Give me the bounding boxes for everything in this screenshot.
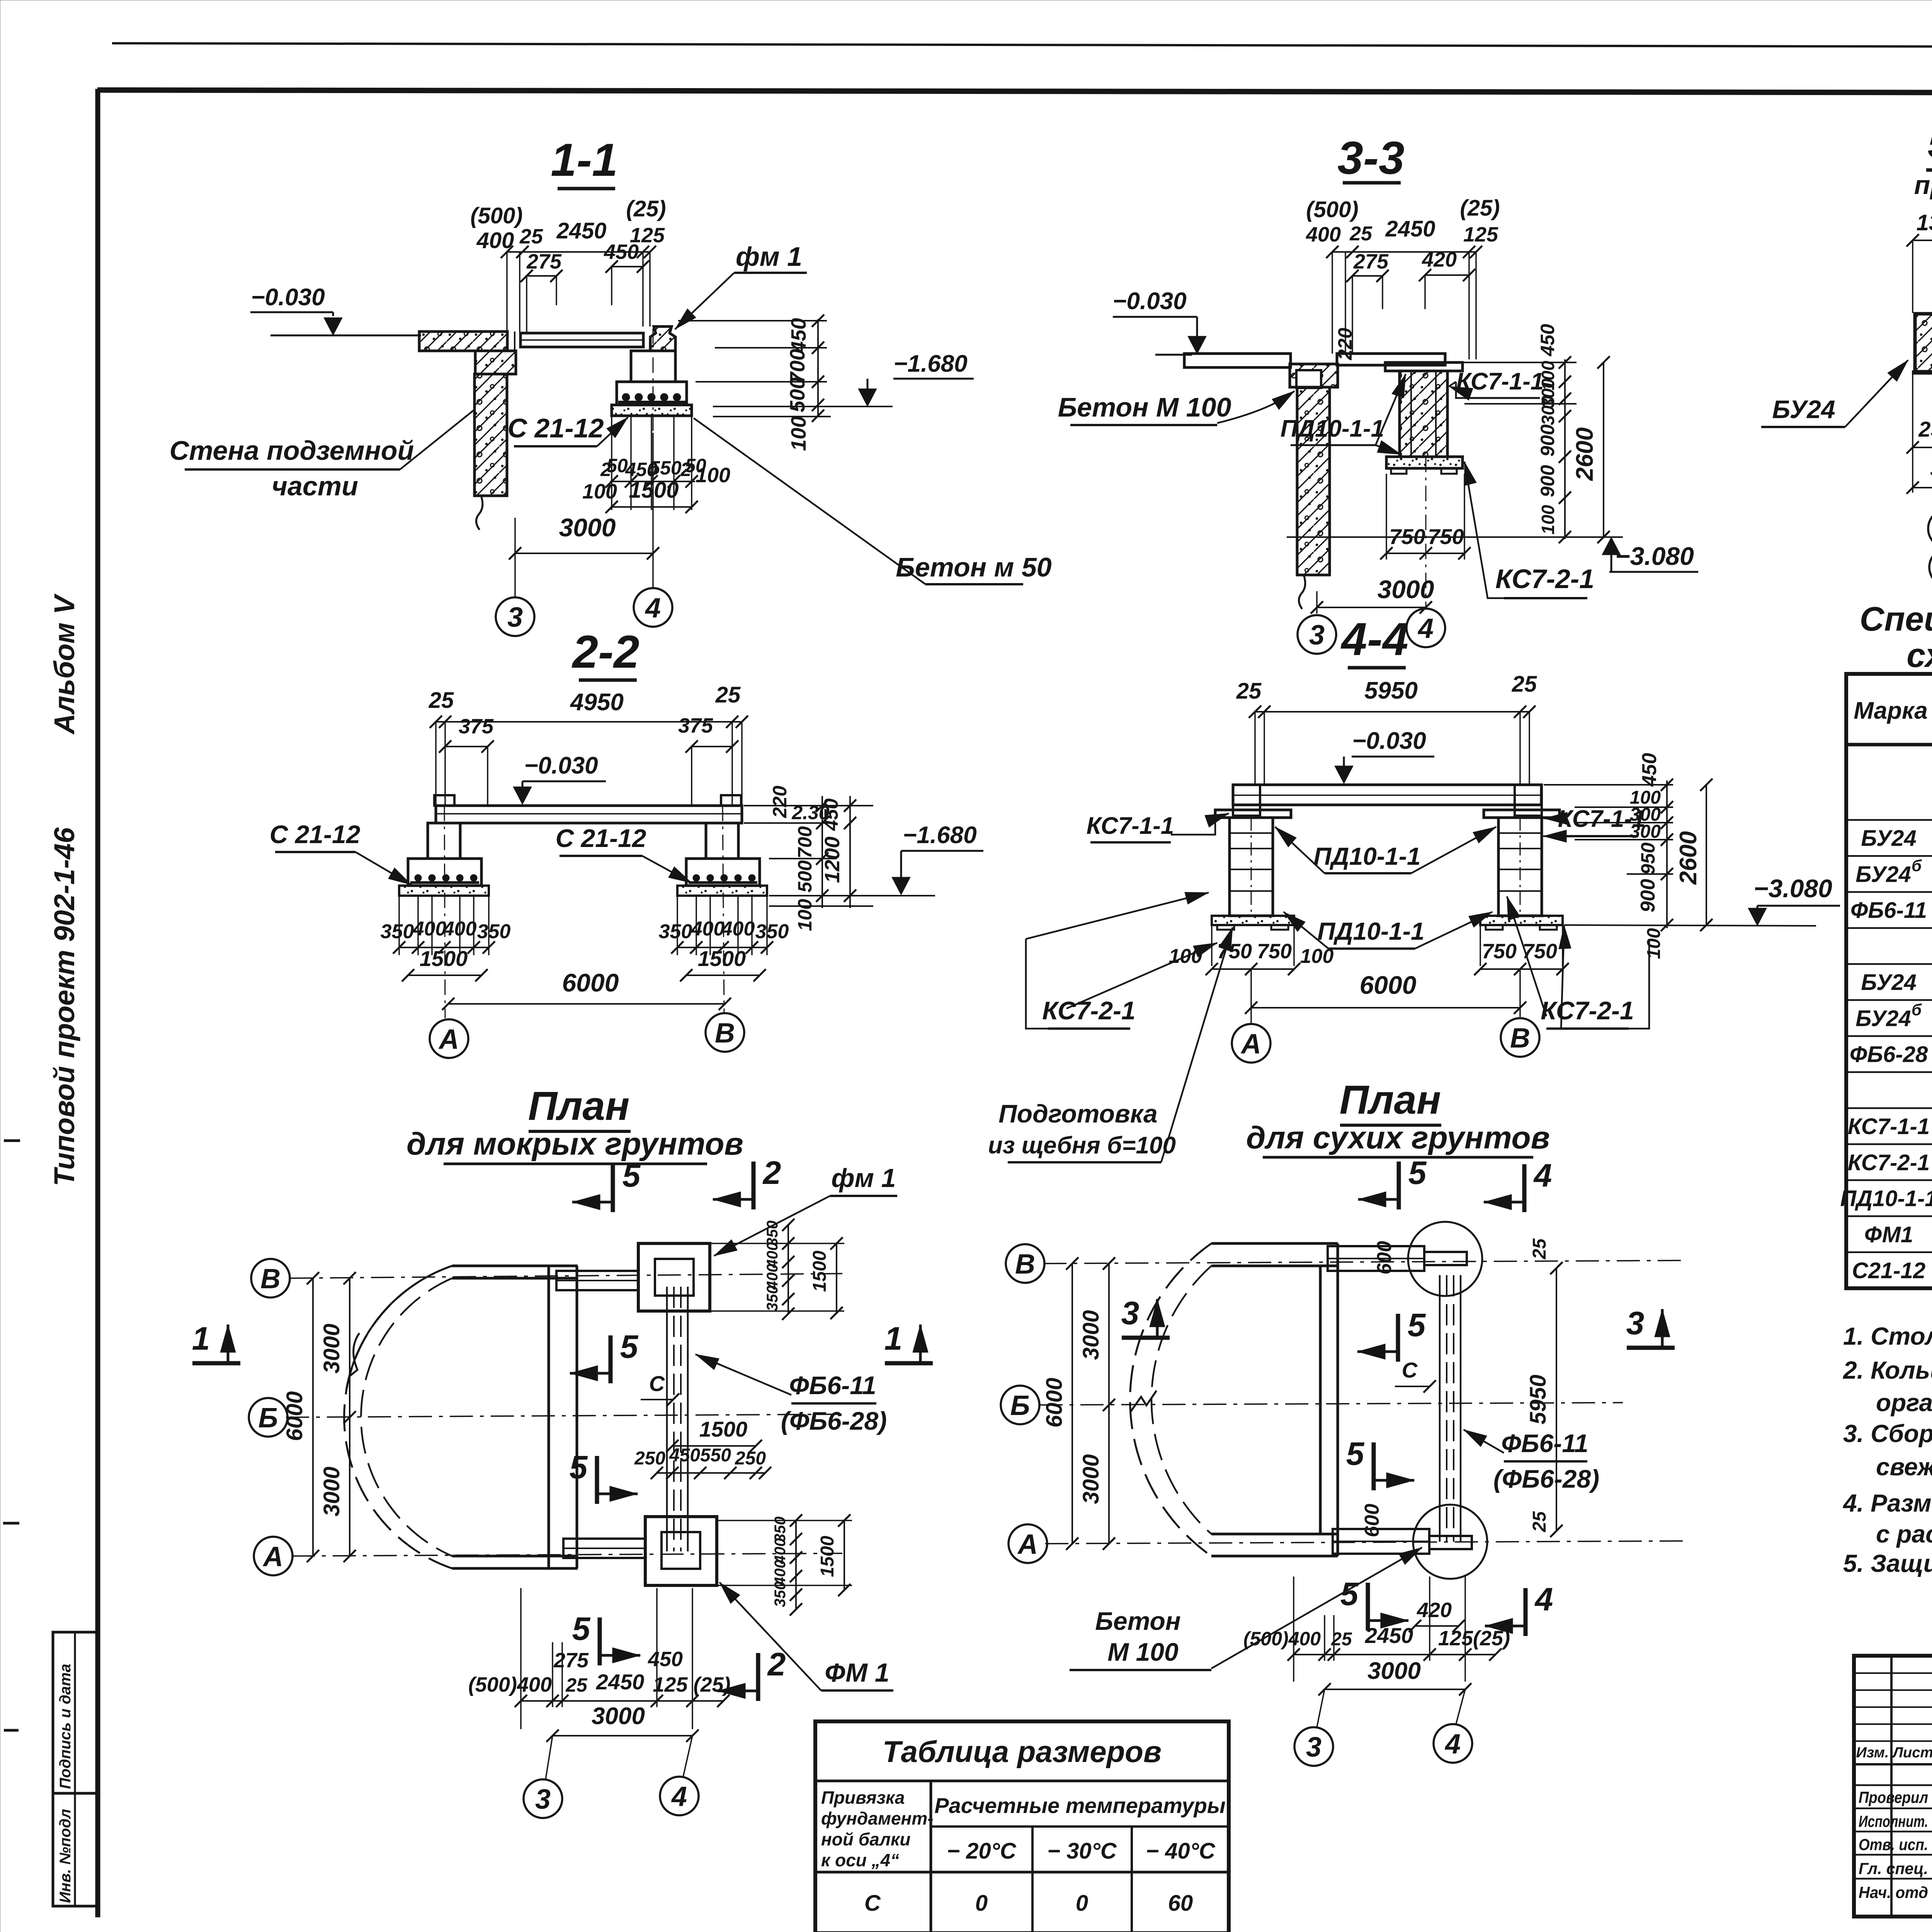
svg-text:1-1: 1-1 [551,134,617,186]
section 3-3 extension lines bottom [1386,474,1387,560]
svg-text:400: 400 [721,918,755,940]
план мокрых грунтов: cut mark 5 middle [595,1456,599,1504]
svg-text:А: А [1017,1529,1038,1560]
svg-text:0: 0 [975,1891,988,1916]
svg-text:130: 130 [1917,210,1932,235]
svg-text:ПД10-1-1: ПД10-1-1 [1840,1186,1932,1211]
svg-text:6000: 6000 [282,1391,307,1441]
svg-text:В: В [1510,1023,1530,1054]
section 1-1 lower extension lines [611,416,612,510]
svg-text:Отв. исп.: Отв. исп. [1859,1835,1928,1854]
section 2-2 left rebar dots [415,874,422,881]
svg-text:2450: 2450 [1365,1623,1413,1648]
svg-text:ПД10-1-1: ПД10-1-1 [1281,415,1384,442]
svg-text:А: А [1240,1029,1261,1060]
план мокрых грунтов: dims near bottom ФМ1 [795,1520,797,1609]
план мокрых грунтов: axis circle В [251,1259,290,1298]
svg-text:для сухих грунтов: для сухих грунтов [1246,1120,1550,1155]
paper edge tick 1 [4,1139,20,1142]
section 1-1 axis line 4 [652,433,654,588]
section 2-2 right base plate [677,886,767,896]
svg-text:Расчетные температуры: Расчетные температуры [934,1793,1225,1818]
svg-text:50: 50 [606,455,628,476]
section 4-4 lower extension lines [1211,925,1213,966]
svg-text:5: 5 [572,1611,591,1647]
section 4-4 right ring column [1498,818,1542,916]
svg-text:4: 4 [645,593,661,624]
svg-text:3. Сборные железобетонные эл: 3. Сборные железобетонные элементы уклад… [1843,1420,1932,1447]
svg-text:3: 3 [1121,1295,1139,1331]
svg-text:Марка: Марка [1854,697,1927,724]
section 4-4 beam [1233,785,1541,805]
svg-text:450: 450 [669,1445,700,1466]
svg-text:3000: 3000 [1367,1658,1421,1684]
svg-text:2450: 2450 [596,1670,645,1694]
section 2-2 right rebar dots [693,874,700,881]
section 3-3 ring column hatched [1400,371,1447,457]
план сухих грунтов: top wall [1211,1242,1338,1245]
план сухих грунтов: cut mark 4 bottom [1524,1588,1528,1636]
svg-text:−0.030: −0.030 [251,284,325,311]
svg-text:450: 450 [1537,324,1558,357]
svg-text:375: 375 [678,714,713,737]
section 4-4 left ring column [1230,818,1273,916]
svg-text:−0.030: −0.030 [524,752,598,779]
svg-text:С 21-12: С 21-12 [270,820,361,849]
svg-text:5: 5 [1340,1576,1359,1612]
section 2-2 beam end blocks [434,795,454,806]
svg-text:2450: 2450 [556,218,606,243]
section 2-2 left footing [408,859,481,886]
план мокрых грунтов: cut mark 5 top [611,1164,615,1212]
section 3-3 right ref lines [1447,362,1577,363]
svg-text:1500: 1500 [699,1417,748,1441]
section 3-3 base feet [1391,468,1406,474]
план мокрых грунтов: axis В line [289,1274,842,1278]
section 2-2 right column [706,823,738,859]
svg-text:25: 25 [1512,672,1537,697]
svg-text:ПД10-1-1: ПД10-1-1 [1313,842,1420,870]
план сухих грунтов: beam band right ФБ6-11 [1439,1275,1441,1542]
svg-text:Б: Б [259,1403,278,1434]
svg-text:900: 900 [1537,465,1558,497]
svg-text:400: 400 [443,918,477,940]
svg-text:750: 750 [1482,940,1517,963]
svg-text:450: 450 [787,318,810,353]
section 1-1 base plate stippled [612,405,692,416]
svg-text:2600: 2600 [1571,427,1598,481]
section 2-2 column centerlines [444,806,445,1018]
svg-text:100: 100 [794,899,816,931]
svg-text:В: В [1015,1249,1035,1280]
svg-text:КС7-1-1: КС7-1-1 [1087,813,1174,839]
section 4-4 top dim line [1255,711,1529,713]
svg-text:1500: 1500 [810,1250,830,1292]
svg-text:3: 3 [535,1784,551,1815]
leader Стена подземной части [400,410,474,469]
svg-text:375: 375 [459,715,494,738]
svg-text:БУ24: БУ24 [1855,862,1911,887]
section 5-5 t-20 beam block БУ24 [1915,314,1932,372]
svg-text:План: План [1340,1077,1441,1122]
left margin box: Инв №подл [53,1793,98,1906]
svg-text:Исполнит.: Исполнит. [1859,1812,1928,1830]
svg-text:6000: 6000 [1360,971,1417,999]
section 1-1 dim line 3000 [515,553,653,554]
svg-text:3: 3 [1306,1732,1321,1763]
план сухих грунтов: axis circle 3 [1294,1727,1333,1766]
section 2-2 beam [436,806,742,823]
svg-text:(500): (500) [1306,197,1358,222]
section 2-2 dim line 375 [445,746,488,747]
план мокрых грунтов: beam БУ24 top pair [556,1271,638,1290]
section 1-1 right vertical dim chain [817,319,819,417]
svg-text:400: 400 [1306,223,1341,246]
section 1-1 axis line 3 [514,518,516,597]
section 1-1 slab joint gap lines [514,332,515,351]
svg-text:350: 350 [755,920,789,943]
svg-text:450: 450 [820,798,842,831]
svg-text:350: 350 [381,920,414,943]
svg-text:600: 600 [1361,1504,1383,1537]
svg-text:схемам, расположенным на листе: схемам, расположенным на листе [1906,636,1932,674]
план мокрых грунтов: foundation ФМ1 top [638,1243,710,1311]
section 1-1 basement wall hatched [474,374,507,496]
svg-text:100: 100 [787,416,810,451]
план сухих грунтов: inner dashed arc [1151,1266,1211,1534]
title block outer border [1854,1656,1932,1917]
svg-text:125 (25): 125 (25) [653,1673,730,1696]
svg-text:3-3: 3-3 [1337,132,1404,184]
svg-text:− 40°C: − 40°C [1146,1838,1216,1864]
svg-text:350: 350 [659,920,692,943]
svg-text:3: 3 [1626,1305,1645,1341]
svg-text:60: 60 [1168,1891,1193,1916]
svg-text:2: 2 [762,1155,781,1191]
план сухих грунтов: axis circle А [1009,1524,1047,1563]
svg-text:(25): (25) [626,196,666,221]
svg-text:25: 25 [715,682,741,707]
svg-text:для мокрых грунтов: для мокрых грунтов [406,1126,743,1162]
svg-text:ной балки: ной балки [821,1829,910,1849]
section 2-2 right footing [686,859,760,886]
svg-text:2: 2 [767,1646,786,1682]
svg-text:С: С [864,1891,881,1916]
svg-text:А: А [438,1024,459,1055]
svg-text:−1.680: −1.680 [893,350,967,377]
svg-text:План: План [528,1083,630,1129]
svg-text:4: 4 [1444,1729,1461,1760]
svg-text:350: 350 [764,1286,781,1311]
section 1-1 dim line 250-450-550-250 [610,481,695,482]
svg-text:Лист: Лист [1892,1745,1932,1761]
план мокрых грунтов: vertical dim line [349,1278,350,1556]
svg-text:КС7-2-1: КС7-2-1 [1495,564,1594,594]
svg-text:КС7-2-1: КС7-2-1 [1042,996,1135,1025]
svg-text:100: 100 [1538,505,1558,534]
план мокрых грунтов: bottom extension lines [520,1588,522,1729]
section 3-3 dim line 3000 [1317,607,1426,608]
svg-text:ФМ 1: ФМ 1 [825,1658,889,1687]
svg-text:5: 5 [1408,1307,1426,1343]
svg-text:1: 1 [884,1320,903,1357]
svg-text:С 21-12: С 21-12 [556,824,646,852]
svg-text:− 20°C: − 20°C [947,1838,1017,1864]
section 3-3 upper slab right band [1337,354,1445,365]
section 1-1 floor slab hatched flange [419,332,507,351]
svg-text:ФБ6-11: ФБ6-11 [1850,898,1927,923]
план сухих грунтов: cut mark 5 mid-upper [1396,1314,1400,1362]
section 4-4 right column top flange [1484,810,1560,818]
section 3-3 axis lines [1316,591,1318,614]
section 5-5 t-20 axis circle В [1929,548,1932,587]
section 3-3 left small hatch block [1290,364,1338,387]
план мокрых грунтов: axis А line [292,1553,842,1556]
svg-text:Нач. отд: Нач. отд [1859,1883,1928,1901]
section 4-4 left base plate [1212,916,1294,925]
svg-text:5. Защитный слой бетона д: 5. Защитный слой бетона для сетки С 21-1… [1843,1549,1932,1577]
section 1-1 dim line 450 [612,266,643,267]
svg-text:5950: 5950 [1526,1374,1551,1424]
svg-text:6000: 6000 [562,968,619,997]
section 4-4 right dim chain [1666,781,1668,928]
svg-text:(ФБ6-28): (ФБ6-28) [1493,1464,1599,1493]
план сухих грунтов: right wall [1319,1266,1322,1534]
section 4-4 right base plate [1480,916,1563,925]
план сухих грунтов: axis circle Б [1001,1386,1039,1424]
svg-text:2-2: 2-2 [571,626,639,678]
section 1-1 rail block on column [650,327,675,351]
svg-text:400: 400 [413,918,447,940]
svg-text:Бетон: Бетон [1095,1607,1180,1635]
svg-text:5: 5 [620,1328,639,1365]
svg-text:(500)400: (500)400 [468,1673,552,1696]
svg-text:к оси „4“: к оси „4“ [821,1850,899,1870]
svg-text:3000: 3000 [319,1323,344,1373]
svg-text:2. Кольца опор заполнить ме: 2. Кольца опор заполнить местным талым г… [1843,1356,1932,1384]
section 1-1 extension lines top dims [506,252,508,332]
svg-text:4: 4 [1534,1581,1553,1617]
svg-text:(500)400: (500)400 [1243,1628,1321,1650]
section 4-4 axis circle В [1501,1018,1539,1057]
svg-text:900: 900 [1637,879,1659,913]
svg-text:300: 300 [1538,395,1558,425]
section 3-3 right vertical dim chain [1564,359,1566,539]
svg-text:КС7-2-1: КС7-2-1 [1541,996,1634,1025]
section 3-3 axis circle 3 [1298,615,1336,654]
svg-text:450: 450 [604,240,639,264]
план мокрых грунтов: axis Б line [286,1414,842,1417]
svg-text:3: 3 [507,602,523,633]
section 1-1 column centerline [653,328,654,433]
план сухих грунтов: axis circle 4 [1434,1724,1472,1763]
svg-text:фм 1: фм 1 [736,241,802,272]
section 4-4 right ref lines [1544,784,1673,786]
план мокрых грунтов: outer dashed arc [344,1266,452,1568]
section 1-1 top dim line [507,251,650,253]
план мокрых грунтов: dims near top ФМ1 [787,1225,789,1314]
план мокрых грунтов: right wall [548,1266,550,1568]
план мокрых грунтов: axis circle Б [249,1398,287,1437]
section 2-2 axis circle В [706,1013,744,1052]
svg-text:C: C [1402,1358,1418,1382]
svg-text:Привязка: Привязка [821,1787,905,1808]
svg-text:3000: 3000 [559,513,616,542]
таблица размеров: grid [930,1781,932,1932]
svg-text:фундамент-: фундамент- [821,1808,934,1828]
svg-text:Типовой проект 902-1-46: Типовой проект 902-1-46 [48,827,80,1186]
svg-text:600: 600 [1373,1241,1396,1275]
svg-text:Инв. №подл: Инв. №подл [57,1809,74,1903]
section 2-2 right dim chain [821,796,823,908]
svg-text:25: 25 [1529,1238,1550,1260]
svg-text:4. Размеры в скобках относ: 4. Размеры в скобках относятся к условия… [1842,1489,1932,1517]
svg-text:фм 1: фм 1 [831,1163,896,1193]
svg-text:3000: 3000 [319,1466,344,1516]
план сухих грунтов: cut mark 3 left flag [1122,1336,1170,1340]
svg-text:5: 5 [1346,1435,1365,1472]
план сухих грунтов: bottom joint detail circle [1413,1505,1487,1579]
svg-text:3: 3 [1309,620,1325,651]
paper edge tick 3 [4,1729,19,1732]
title block row lines signatures [1854,1784,1932,1786]
svg-text:б: б [1912,1000,1922,1019]
svg-text:750: 750 [1428,524,1464,549]
svg-text:1500: 1500 [817,1536,838,1577]
план сухих грунтов: bottom wall [1211,1533,1338,1536]
svg-text:4: 4 [671,1781,687,1812]
svg-text:БУ24: БУ24 [1861,826,1916,851]
svg-text:части: части [272,471,358,501]
section 3-3 dim line 750-750 [1386,553,1464,554]
план мокрых грунтов: inner dashed arc [361,1278,452,1556]
svg-text:25: 25 [1529,1511,1550,1532]
section 5-5 t-20 extension lines [1912,372,1913,493]
section 1-1 ground line [270,335,421,337]
section 1-1 axis circle 3 [496,597,534,636]
svg-text:100: 100 [696,464,730,487]
svg-text:С 21-12: С 21-12 [507,413,604,443]
section 1-1 level line -1.680 [713,406,893,407]
svg-text:380: 380 [1930,456,1932,481]
svg-text:1500: 1500 [698,946,746,971]
spec table header underline [1846,743,1932,747]
svg-text:420: 420 [1417,1599,1452,1622]
план мокрых грунтов: cut mark 1 left [192,1361,240,1366]
svg-text:−1.680: −1.680 [903,822,976,849]
section 3-3 ground line [1155,354,1192,356]
section 3-3 floor slab left part [1184,354,1291,367]
section 3-3 axis circle 4 [1406,609,1445,647]
svg-text:−3.080: −3.080 [1753,874,1832,903]
section 2-2 extension lines top [435,722,437,806]
section 2-2 lower extension lines left [398,896,400,955]
svg-text:550: 550 [700,1445,731,1466]
svg-text:б: б [1912,856,1922,874]
svg-text:950: 950 [1637,842,1659,875]
section 2-2 left column [428,823,460,859]
section 1-1 dim line 1500 [612,506,692,508]
svg-text:Спецификация элементов к марки: Спецификация элементов к маркировочным [1860,600,1932,638]
svg-text:1500: 1500 [420,946,468,971]
svg-text:Изм.: Изм. [1856,1745,1889,1761]
план мокрых грунтов: cut mark 2 bottom [756,1653,760,1701]
svg-text:М 100: М 100 [1107,1638,1179,1666]
svg-text:250: 250 [1918,417,1932,441]
план сухих грунтов: cut mark 4 top [1522,1164,1527,1212]
план сухих грунтов: axis circle В [1006,1244,1044,1283]
svg-text:5: 5 [570,1449,588,1485]
svg-text:6000: 6000 [1042,1378,1067,1427]
section 2-2 top dim line [436,721,742,723]
план сухих грунтов: bottom extension lines [1293,1577,1294,1682]
section 2-2 right ref lines [744,805,873,806]
svg-text:2450: 2450 [1385,216,1435,241]
svg-text:900: 900 [1537,424,1558,457]
план мокрых грунтов: axis circle 4 [660,1777,699,1815]
page frame: thin top border line [112,43,1932,48]
svg-text:4950: 4950 [570,689,624,716]
svg-text:Таблица размеров: Таблица размеров [883,1735,1162,1769]
paper edge tick 2 [3,1522,19,1525]
spec table outer border [1846,674,1932,1288]
план мокрых грунтов: cut mark 5 bottom [598,1617,602,1665]
план мокрых грунтов: cut mark 2 top [752,1162,756,1209]
svg-text:− 30°C: − 30°C [1047,1838,1117,1864]
план сухих грунтов: break squiggle on axis Б [1130,1391,1156,1412]
section 3-3 basement wall hatched [1297,387,1330,575]
svg-text:3000: 3000 [592,1703,645,1730]
svg-text:при t=−20°: при t=−20° [1914,170,1932,200]
section 3-3 dim line 420 [1425,274,1469,276]
section 3-3 column top flange [1385,362,1463,371]
section 1-1 column [631,351,675,382]
svg-text:−0.030: −0.030 [1352,728,1426,754]
svg-text:25: 25 [519,225,543,248]
svg-text:250: 250 [634,1448,665,1469]
section 3-3 wall bottom break squiggle [1299,575,1305,609]
план сухих грунтов: rotated dim 5950 [1556,1268,1557,1531]
section 3-3 slab stub left of wall [1296,370,1321,388]
left margin box: Подпись и дата [53,1632,98,1793]
план мокрых грунтов: cut mark 5 mid-upper [609,1335,613,1383]
svg-text:Б: Б [1010,1390,1030,1421]
spec table row lines [1846,819,1932,821]
svg-text:125: 125 [1463,223,1498,246]
svg-text:220: 220 [769,786,791,818]
план сухих грунтов: vertical dim lines [1108,1264,1110,1544]
svg-text:С21-12: С21-12 [1852,1258,1925,1283]
svg-text:250: 250 [735,1448,766,1469]
section 3-3 dim line 275 [1352,275,1383,277]
section 4-4 axis line left [1250,969,1252,1023]
svg-text:В: В [715,1018,735,1049]
svg-text:5950: 5950 [1364,677,1418,704]
svg-text:Подготовка: Подготовка [998,1099,1157,1128]
план сухих грунтов: axis В line [1043,1260,1685,1264]
план мокрых грунтов: cut mark 1 right [885,1361,933,1366]
план сухих грунтов: bottom beams БУ24 [1333,1529,1429,1554]
section 4-4 right foot pads [1486,925,1503,930]
план сухих грунтов: axis Б line [1039,1403,1623,1405]
svg-text:2600: 2600 [1675,831,1702,885]
svg-text:ФБ6-11: ФБ6-11 [789,1371,876,1400]
svg-text:25: 25 [1236,679,1262,704]
section 1-1 right ref lines [678,320,827,321]
svg-text:органических примесей.: органических примесей. [1876,1389,1932,1417]
section 3-3 column base plate [1386,457,1463,468]
svg-text:100: 100 [1644,928,1664,959]
